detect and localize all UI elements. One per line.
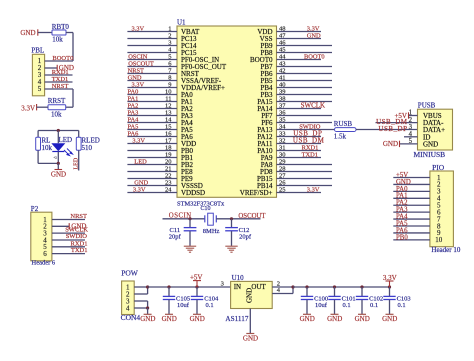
resistor RBT0 — [52, 30, 66, 35]
svg-text:3.3V: 3.3V — [132, 82, 145, 89]
svg-text:10k: 10k — [52, 36, 63, 44]
svg-text:NRST: NRST — [52, 83, 69, 90]
svg-text:510: 510 — [82, 144, 93, 152]
svg-text:28: 28 — [279, 166, 286, 173]
wire POW pin2 — [134, 293, 147, 295]
capacitor C104 — [196, 287, 198, 296]
U1 left pin numbers 1-24 — [165, 26, 172, 194]
svg-text:48: 48 — [279, 26, 286, 33]
junction C104 — [195, 285, 198, 288]
svg-text:34: 34 — [279, 124, 286, 131]
svg-text:36: 36 — [279, 110, 286, 117]
power port GND below C101 — [331, 313, 339, 315]
svg-text:PA2: PA2 — [128, 103, 139, 110]
svg-text:3.3V: 3.3V — [132, 26, 145, 33]
svg-text:GND: GND — [140, 315, 155, 323]
svg-text:23: 23 — [165, 180, 172, 187]
wire PBL pin5 — [45, 88, 73, 90]
svg-text:PUSB: PUSB — [418, 102, 436, 110]
svg-text:3.3V: 3.3V — [132, 138, 145, 145]
ground below C11 — [184, 245, 196, 247]
wire PUSB pin2 — [376, 122, 418, 124]
wire PBL pin2 — [45, 67, 57, 69]
svg-text:15: 15 — [165, 124, 172, 131]
wire OSCIN to crystal — [163, 218, 205, 220]
svg-text:3.3V: 3.3V — [21, 104, 35, 112]
svg-text:6: 6 — [43, 250, 47, 258]
svg-text:1: 1 — [168, 26, 171, 33]
wire POW pin1 — [134, 286, 147, 288]
wire U10 GND pin — [249, 309, 251, 334]
svg-text:VDDSD: VDDSD — [181, 189, 205, 197]
LED D-LED — [57, 131, 59, 144]
wire PIO pin 2 — [393, 183, 430, 185]
svg-text:MINIUSB: MINIUSB — [414, 150, 446, 159]
svg-text:30: 30 — [279, 152, 286, 159]
capacitor C100 — [306, 287, 308, 296]
wire crystal to OSCOUT — [216, 218, 260, 220]
capacitor C103 — [389, 287, 391, 296]
svg-text:OSCIN: OSCIN — [128, 54, 148, 61]
resistor RL — [37, 131, 39, 138]
capacitor C11 — [189, 219, 191, 227]
svg-text:10k: 10k — [51, 110, 62, 118]
svg-text:PA3: PA3 — [128, 110, 139, 117]
svg-text:LED: LED — [59, 136, 73, 144]
svg-text:42: 42 — [279, 68, 286, 75]
svg-text:1.5k: 1.5k — [334, 133, 347, 141]
wire PBL pin5 to RRST — [72, 89, 74, 107]
svg-text:45: 45 — [279, 47, 286, 54]
svg-text:12: 12 — [165, 103, 172, 110]
svg-text:GND: GND — [243, 335, 258, 343]
svg-text:GND: GND — [162, 315, 177, 323]
wire PIO pin 1 — [393, 177, 430, 179]
svg-text:13: 13 — [165, 110, 172, 117]
U1 right pin numbers 48-25 — [279, 26, 286, 194]
svg-text:27: 27 — [279, 173, 286, 180]
svg-text:10uf: 10uf — [315, 302, 328, 309]
power port GND below POW — [147, 308, 149, 314]
wire U10 OUT pin2 — [272, 286, 293, 288]
wire P2 pin1 — [52, 219, 85, 221]
power port GND on PUSB pin5 — [399, 141, 401, 147]
svg-text:GND: GND — [300, 315, 315, 323]
junction POW pin4 — [146, 306, 149, 309]
svg-text:RBT0: RBT0 — [52, 23, 70, 31]
wire POW pin4 — [134, 307, 147, 309]
svg-text:3.3V: 3.3V — [307, 187, 320, 194]
svg-text:GND: GND — [190, 315, 205, 323]
svg-text:RRST: RRST — [48, 97, 66, 105]
power port GND below C104 — [193, 313, 201, 315]
svg-text:18: 18 — [165, 145, 172, 152]
wire 3.3V to RRST — [37, 106, 48, 108]
wire PIO pin 4 — [393, 197, 430, 199]
svg-text:PB0: PB0 — [396, 234, 408, 241]
wire PIO pin 9 — [393, 232, 430, 234]
svg-text:TXD1: TXD1 — [52, 76, 69, 83]
svg-text:3: 3 — [409, 124, 413, 131]
svg-text:5: 5 — [168, 54, 171, 61]
svg-text:+2: +2 — [53, 156, 57, 160]
svg-text:USB_DP: USB_DP — [378, 125, 407, 133]
U1 left pin names — [181, 28, 227, 197]
junction on LED bottom rail — [57, 162, 60, 165]
resistor RLED — [78, 131, 80, 138]
wire PUSB pin4 — [404, 136, 418, 138]
svg-text:32: 32 — [279, 138, 286, 145]
svg-text:46: 46 — [279, 40, 286, 47]
svg-text:2: 2 — [168, 33, 171, 40]
svg-text:U10: U10 — [232, 274, 245, 282]
power port GND on PBL pin2 — [56, 65, 58, 71]
svg-text:44: 44 — [279, 54, 286, 61]
svg-text:GND: GND — [383, 140, 398, 148]
svg-text:38: 38 — [279, 96, 286, 103]
svg-text:RUSB: RUSB — [334, 120, 353, 128]
power port GND below U10 — [246, 333, 254, 335]
wire 3.3V rail — [293, 286, 390, 288]
svg-text:24: 24 — [165, 187, 172, 194]
svg-text:TXD1: TXD1 — [302, 152, 318, 159]
wire PBL pin1 — [45, 60, 73, 62]
junction POW pin1 — [146, 285, 149, 288]
svg-text:GND: GND — [246, 288, 254, 303]
svg-text:0.1: 0.1 — [343, 302, 351, 309]
svg-text:Header 10: Header 10 — [431, 246, 460, 254]
svg-text:PBL: PBL — [31, 47, 44, 55]
svg-text:26: 26 — [279, 180, 286, 187]
wire PIO pin 5 — [393, 204, 430, 206]
svg-text:GND: GND — [134, 180, 148, 187]
svg-text:GND: GND — [307, 33, 321, 40]
svg-text:8MHz: 8MHz — [203, 228, 220, 235]
svg-text:U1: U1 — [177, 19, 186, 27]
svg-text:CON4: CON4 — [121, 313, 141, 322]
svg-text:AS1117: AS1117 — [225, 315, 248, 323]
svg-text:20: 20 — [165, 159, 172, 166]
svg-text:41: 41 — [279, 75, 286, 82]
svg-text:35: 35 — [279, 117, 286, 124]
svg-text:RXD1: RXD1 — [52, 69, 69, 76]
svg-text:9: 9 — [168, 82, 171, 89]
svg-text:GND: GND — [128, 75, 142, 82]
svg-text:OSCIN: OSCIN — [169, 213, 192, 220]
svg-text:31: 31 — [279, 145, 286, 152]
capacitor C102 — [361, 287, 363, 296]
capacitor C12 — [231, 219, 233, 227]
svg-text:Header 6: Header 6 — [32, 260, 56, 267]
svg-text:3: 3 — [221, 280, 224, 287]
wire LED bottom rail — [38, 162, 58, 164]
svg-text:33: 33 — [279, 131, 286, 138]
wire P2 pin3 — [52, 232, 85, 234]
wire P2 pin6 — [52, 253, 85, 255]
svg-text:10k: 10k — [42, 144, 53, 152]
svg-text:PA4: PA4 — [128, 117, 140, 124]
power port +5V on PUSB pin1 — [408, 112, 410, 118]
wire P2 pin4 — [52, 239, 85, 241]
svg-text:NRST: NRST — [128, 68, 144, 75]
junction C105 — [167, 285, 170, 288]
svg-text:17: 17 — [165, 138, 172, 145]
wire +5V rail to U10 IN — [148, 286, 231, 288]
svg-text:20pf: 20pf — [239, 233, 252, 240]
svg-text:OSCOUT: OSCOUT — [238, 213, 266, 220]
junction C102 — [360, 285, 363, 288]
power port GND below C100 — [303, 313, 311, 315]
svg-text:LED: LED — [74, 157, 80, 169]
svg-text:19: 19 — [165, 152, 172, 159]
junction C11 — [188, 217, 191, 220]
svg-text:10uf: 10uf — [177, 302, 190, 309]
wire GND to RBT0 — [38, 32, 52, 34]
svg-text:22: 22 — [165, 173, 172, 180]
svg-text:8: 8 — [168, 75, 171, 82]
wire P2 pin5 — [52, 246, 85, 248]
svg-text:47: 47 — [279, 33, 286, 40]
svg-text:LED: LED — [134, 159, 147, 166]
power port GND below LED — [57, 163, 59, 169]
svg-text:20pf: 20pf — [169, 233, 182, 240]
junction U10 OUT — [291, 285, 294, 288]
svg-text:SWCLK: SWCLK — [301, 102, 326, 110]
power port GND below C105 — [165, 313, 173, 315]
svg-text:OSCOUT: OSCOUT — [128, 61, 154, 68]
svg-text:14: 14 — [165, 117, 172, 124]
svg-text:25: 25 — [279, 187, 286, 194]
svg-text:GND: GND — [327, 315, 342, 323]
wire POW pin3 — [134, 300, 147, 302]
svg-text:PA6: PA6 — [128, 131, 139, 138]
wire PUSB pin5 — [400, 143, 418, 145]
power port GND below C103 — [386, 313, 394, 315]
svg-text:0.1: 0.1 — [370, 302, 378, 309]
wire RUSB to PUSB pin3 — [356, 129, 418, 131]
svg-text:BOOT0: BOOT0 — [304, 54, 325, 61]
svg-text:3: 3 — [168, 40, 171, 47]
svg-text:0.1: 0.1 — [398, 302, 406, 309]
power port GND below C102 — [358, 313, 366, 315]
junction C12 — [230, 217, 233, 220]
svg-text:3.3V: 3.3V — [307, 26, 320, 33]
svg-text:VREF/SD+: VREF/SD+ — [240, 189, 273, 197]
junction C100 — [305, 285, 308, 288]
wire PIO pin 3 — [393, 190, 430, 192]
svg-text:GND: GND — [423, 140, 438, 148]
wire PBL pin4 — [45, 81, 73, 83]
svg-text:C10: C10 — [201, 206, 211, 212]
capacitor C105 — [168, 287, 170, 296]
power port GND on P2 pin2 — [68, 223, 70, 229]
ground below C12 — [225, 245, 237, 247]
U1 right pin names — [240, 28, 273, 197]
svg-text:0.1: 0.1 — [206, 302, 214, 309]
svg-text:GND: GND — [355, 315, 370, 323]
wire PIO pin 7 — [393, 218, 430, 220]
U1 left pin wires — [127, 32, 177, 193]
svg-text:39: 39 — [279, 89, 286, 96]
svg-text:3.3V: 3.3V — [133, 187, 146, 194]
svg-text:10: 10 — [165, 89, 172, 96]
wire P2 pin2 — [52, 225, 69, 227]
svg-text:RXD1: RXD1 — [302, 145, 319, 152]
junction C101 — [333, 285, 336, 288]
junction C103 — [388, 285, 391, 288]
svg-text:37: 37 — [279, 103, 286, 110]
svg-text:GND: GND — [51, 170, 66, 178]
svg-text:POW: POW — [121, 269, 139, 278]
svg-text:21: 21 — [165, 166, 172, 173]
wire RBT0 to PBL pin1 — [66, 32, 73, 34]
svg-text:10: 10 — [435, 236, 443, 244]
svg-text:PA5: PA5 — [128, 124, 139, 131]
svg-text:16: 16 — [165, 131, 172, 138]
svg-text:BOOT0: BOOT0 — [52, 55, 73, 62]
svg-text:PA1: PA1 — [128, 96, 139, 103]
svg-text:USB_DM: USB_DM — [293, 137, 325, 145]
svg-text:IN: IN — [234, 283, 241, 291]
svg-text:NRST: NRST — [70, 213, 87, 220]
svg-text:43: 43 — [279, 61, 286, 68]
svg-text:4: 4 — [126, 304, 130, 312]
svg-text:SWDIO: SWDIO — [66, 233, 88, 240]
wire PBL pin3 — [45, 74, 73, 76]
wire PIO pin 6 — [393, 211, 430, 213]
svg-text:PA0: PA0 — [128, 89, 139, 96]
svg-text:GND: GND — [382, 315, 397, 323]
wire U10 pin4 — [272, 293, 293, 295]
wire PIO pin 8 — [393, 225, 430, 227]
capacitor C101 — [334, 287, 336, 296]
svg-text:11: 11 — [165, 96, 171, 103]
U1 right pin wires — [277, 32, 335, 193]
wire PIO pin 10 — [393, 239, 430, 241]
svg-text:GND: GND — [20, 29, 35, 37]
resistor RRST — [48, 105, 66, 110]
LED emission arrows — [64, 149, 73, 156]
wire LED top rail — [38, 130, 79, 132]
svg-text:TXD1: TXD1 — [71, 247, 88, 254]
wire PUSB pin1 — [409, 115, 418, 117]
svg-text:OUT: OUT — [251, 283, 266, 291]
resistor RUSB — [335, 128, 357, 132]
svg-text:40: 40 — [279, 82, 286, 89]
junction on LED rail — [57, 129, 60, 132]
svg-text:5: 5 — [38, 85, 42, 93]
svg-text:29: 29 — [279, 159, 286, 166]
